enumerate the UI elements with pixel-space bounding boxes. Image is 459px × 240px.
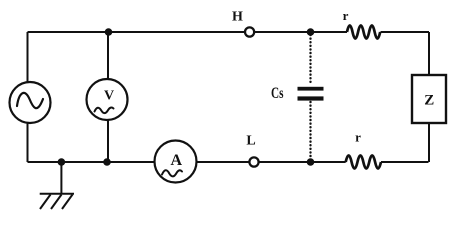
svg-text:L: L <box>246 134 255 149</box>
svg-text:H: H <box>232 10 243 25</box>
capacitor Cs plates <box>298 87 324 91</box>
junction V top <box>105 28 113 36</box>
ammeter A <box>155 141 197 183</box>
terminal L <box>249 157 258 166</box>
wire bottom bus left segment <box>28 161 346 163</box>
junction ground <box>58 158 66 166</box>
wire top bus left segment <box>28 31 348 33</box>
svg-text:Cs: Cs <box>271 85 284 102</box>
wire bottom bus right segment <box>381 161 429 163</box>
resistor r bottom <box>346 156 381 169</box>
wire voltmeter branch <box>107 32 109 162</box>
impedance Z box <box>412 75 446 123</box>
svg-text:r: r <box>343 8 349 23</box>
capacitor Cs dotted lead <box>309 35 311 85</box>
terminal H <box>245 27 254 36</box>
svg-text:V: V <box>104 89 114 104</box>
junction Cs bottom <box>307 158 315 166</box>
resistor r top <box>347 26 380 39</box>
wire top bus right segment <box>381 31 430 33</box>
voltmeter V <box>87 79 128 120</box>
junction Cs top <box>307 28 315 36</box>
junction V bottom <box>103 158 111 166</box>
wire right vertical bottom segment <box>428 123 430 162</box>
wire right vertical top segment <box>428 32 430 75</box>
svg-text:A: A <box>171 152 183 169</box>
ground <box>40 162 74 209</box>
svg-text:Z: Z <box>424 93 434 109</box>
svg-text:r: r <box>355 130 361 145</box>
wire left vertical branch <box>27 32 29 162</box>
source G (AC source) <box>10 82 51 123</box>
